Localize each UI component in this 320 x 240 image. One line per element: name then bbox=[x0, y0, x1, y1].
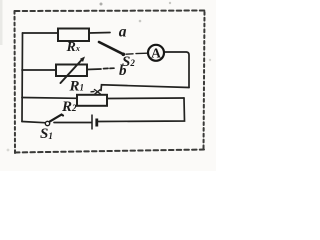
svg-text:Rx: Rx bbox=[66, 40, 80, 55]
svg-text:A: A bbox=[151, 46, 161, 61]
svg-text:S1: S1 bbox=[40, 126, 53, 142]
svg-text:R1: R1 bbox=[69, 78, 85, 94]
svg-text:R2: R2 bbox=[61, 99, 77, 115]
svg-text:S2: S2 bbox=[122, 54, 135, 70]
svg-text:a: a bbox=[119, 23, 127, 40]
